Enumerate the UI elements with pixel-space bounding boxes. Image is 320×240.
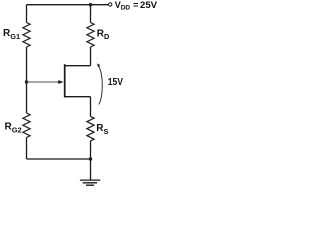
resistor RD xyxy=(87,23,94,48)
node junction dot bottom xyxy=(89,157,92,160)
svg-text:RG2: RG2 xyxy=(5,122,22,135)
wire drain vertical xyxy=(90,47,92,66)
node junction dot at VDD rail xyxy=(89,3,92,6)
gate arrowhead xyxy=(58,80,63,84)
svg-text:=: = xyxy=(133,0,138,10)
wire bottom rail xyxy=(27,158,91,160)
svg-text:25V: 25V xyxy=(140,0,157,10)
wire right vertical top xyxy=(90,5,92,23)
svg-text:RS: RS xyxy=(96,123,108,136)
ground xyxy=(80,180,100,185)
wire source bottom xyxy=(90,141,92,159)
wire left vertical top xyxy=(26,5,28,23)
svg-text:VDD: VDD xyxy=(115,0,131,11)
wire gate lead xyxy=(27,81,60,83)
transistor Q1 drain lead xyxy=(65,65,90,67)
resistor RG1 xyxy=(23,23,30,48)
transistor Q1 source lead xyxy=(65,96,90,98)
VDS arrowhead xyxy=(97,63,100,67)
node VDD terminal circle xyxy=(109,3,112,6)
wire ground stub xyxy=(90,159,92,180)
wire top rail xyxy=(27,4,109,6)
wire source vertical xyxy=(90,97,92,117)
node junction dot at gate xyxy=(25,80,28,83)
svg-text:RG1: RG1 xyxy=(3,28,20,41)
transistor Q1 channel bar xyxy=(64,64,66,97)
resistor RS xyxy=(87,116,94,140)
VDS measurement arc xyxy=(99,66,103,104)
svg-text:RD: RD xyxy=(97,29,110,42)
wire left vertical middle xyxy=(26,47,28,113)
wire left vertical bottom xyxy=(26,138,28,160)
svg-text:15V: 15V xyxy=(108,77,123,88)
resistor RG2 xyxy=(23,113,30,138)
